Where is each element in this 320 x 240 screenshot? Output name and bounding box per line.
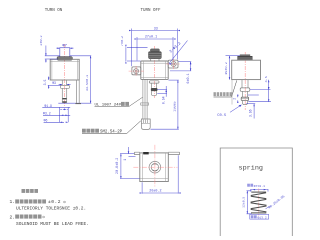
notes title (CJK blobs) bbox=[22, 189, 39, 193]
svg-text:SM2.54-2P: SM2.54-2P bbox=[100, 131, 123, 135]
spring bottom boxed label bbox=[250, 214, 269, 219]
svg-text:2-Φ3.2: 2-Φ3.2 bbox=[169, 41, 183, 54]
dim phi7 label bbox=[62, 44, 66, 49]
bracket legs below body bbox=[77, 80, 80, 103]
dark mark on top edge bbox=[143, 152, 149, 154]
wires below body bbox=[143, 79, 147, 119]
dim 6±0.1 (right of ears) bbox=[170, 62, 191, 71]
svg-text:3.5: 3.5 bbox=[43, 80, 47, 86]
plunger bottom (middle view) bbox=[149, 81, 159, 83]
body left edge extension down bbox=[231, 80, 233, 105]
dim 1 (tab) bbox=[129, 147, 136, 156]
svg-text:UL 1007 24#: UL 1007 24# bbox=[95, 104, 122, 108]
svg-text:C0.5: C0.5 bbox=[217, 114, 227, 118]
svg-text:4.5: 4.5 bbox=[265, 76, 269, 82]
svg-text:15±0.2: 15±0.2 bbox=[225, 62, 229, 75]
svg-text:2: 2 bbox=[232, 98, 236, 100]
svg-text:1: 1 bbox=[123, 159, 127, 161]
svg-text:Φ3: Φ3 bbox=[52, 81, 56, 85]
spring wire dia label bbox=[267, 194, 285, 209]
svg-text:2.: 2. bbox=[10, 214, 16, 220]
svg-text:Φ6: Φ6 bbox=[44, 119, 48, 123]
label coil below frame (CJK blobs) with leader bbox=[214, 92, 232, 96]
left ear bbox=[132, 67, 141, 75]
plunger box top bbox=[60, 48, 70, 57]
body (middle view) bbox=[141, 61, 168, 79]
svg-text:150±5: 150±5 bbox=[174, 101, 178, 111]
spring top dim (inner dia) bbox=[247, 184, 265, 188]
svg-text:spring: spring bbox=[239, 164, 263, 172]
plunger cap (middle view) bbox=[149, 49, 162, 61]
note line 3 bbox=[10, 214, 45, 220]
dim 33.5±0.1 bbox=[58, 56, 91, 103]
shaft lower bbox=[62, 88, 66, 103]
label C0.5 with leader bbox=[217, 114, 227, 118]
svg-text:27±0.1: 27±0.1 bbox=[145, 36, 157, 40]
svg-text:Φ7: Φ7 bbox=[62, 44, 66, 49]
svg-text:3.56: 3.56 bbox=[249, 109, 253, 117]
svg-text:33.5±0.1: 33.5±0.1 bbox=[86, 75, 90, 91]
bottom view tabs bbox=[134, 152, 139, 154]
dim 15±0.2 bbox=[226, 56, 241, 80]
svg-text:2±0.2: 2±0.2 bbox=[40, 35, 44, 45]
body (left view) bbox=[50, 59, 79, 80]
label connector shell model bbox=[82, 129, 123, 135]
dim phi7 arrows bbox=[56, 47, 73, 49]
spring box frame bbox=[220, 148, 292, 236]
dim 20.8±0.2 (bottom view left) bbox=[120, 154, 140, 179]
svg-text:SOLENOID MUST BE LEAD FREE.: SOLENOID MUST BE LEAD FREE. bbox=[16, 221, 89, 227]
svg-text:1.: 1. bbox=[10, 199, 16, 205]
center circle bbox=[149, 161, 161, 173]
dim 7±0.2 (middle left) bbox=[126, 47, 148, 61]
collar phi6 bbox=[60, 85, 69, 88]
dim phi1.9 bbox=[44, 104, 52, 108]
centerline middle view vertical bbox=[154, 46, 156, 98]
body (right view) bbox=[232, 60, 261, 79]
svg-text:6±0.1: 6±0.1 bbox=[187, 73, 191, 83]
cap (right view) bbox=[240, 54, 250, 56]
right ear bbox=[168, 60, 178, 68]
connector (middle view bottom) bbox=[141, 119, 150, 129]
dim 27±0.1 (middle) bbox=[137, 37, 173, 61]
svg-text:ULTERIORLY TOLERSNCE ±0.2.: ULTERIORLY TOLERSNCE ±0.2. bbox=[16, 206, 86, 212]
spring dim 12±0.5 bbox=[247, 191, 252, 214]
svg-text:Φ13.2: Φ13.2 bbox=[257, 215, 266, 219]
svg-text:12±0.5: 12±0.5 bbox=[242, 197, 246, 208]
dim 33 (middle top) bbox=[132, 29, 178, 67]
crosshair bottom view bbox=[133, 145, 177, 187]
shaft neck phi3 bbox=[62, 80, 66, 85]
bottom view square bbox=[140, 153, 169, 182]
label UL 1007 24# black wire bbox=[95, 102, 130, 108]
svg-text:TURN ON: TURN ON bbox=[45, 9, 63, 13]
dim 20±0.2 (bottom view bottom) bbox=[142, 155, 178, 193]
label 2-phi3.2 with leader bbox=[169, 41, 188, 64]
dim lines lower right bbox=[246, 90, 271, 119]
dim phi3 bbox=[52, 81, 56, 85]
dim 3.5 (left) bbox=[48, 77, 62, 89]
dim 0.54 bbox=[157, 86, 167, 97]
svg-text:Φ0.25±0.05: Φ0.25±0.05 bbox=[267, 194, 285, 209]
centerline left view bbox=[63, 44, 65, 106]
svg-text:TURN OFF: TURN OFF bbox=[140, 9, 161, 13]
svg-text:0.54: 0.54 bbox=[161, 96, 165, 104]
shaft below body (right view) bbox=[242, 80, 248, 88]
dim phi6 bbox=[44, 119, 48, 123]
note line 1 bbox=[10, 199, 66, 205]
dim phi3.2 bbox=[43, 112, 51, 116]
wire tie band bbox=[141, 103, 149, 105]
svg-text:Φ7±0.1: Φ7±0.1 bbox=[254, 184, 265, 188]
cap dark (left view) bbox=[57, 57, 72, 61]
dim 2 (rings) bbox=[237, 95, 239, 104]
svg-text:7±0.2: 7±0.2 bbox=[121, 36, 125, 46]
dim 4.5 bbox=[250, 80, 271, 90]
dark bands on shaft bbox=[63, 98, 67, 99]
svg-text:20±0.2: 20±0.2 bbox=[149, 189, 161, 193]
dim 150±5 bbox=[151, 80, 179, 129]
svg-text:20.8±0.2: 20.8±0.2 bbox=[116, 158, 120, 174]
centerline right view bbox=[244, 52, 246, 110]
spring coil bbox=[251, 192, 267, 213]
svg-text:±0.2: ±0.2 bbox=[48, 199, 61, 205]
svg-text:33: 33 bbox=[154, 27, 158, 31]
spring centerline bbox=[258, 189, 260, 217]
dim 2±0.2 bbox=[45, 46, 91, 63]
